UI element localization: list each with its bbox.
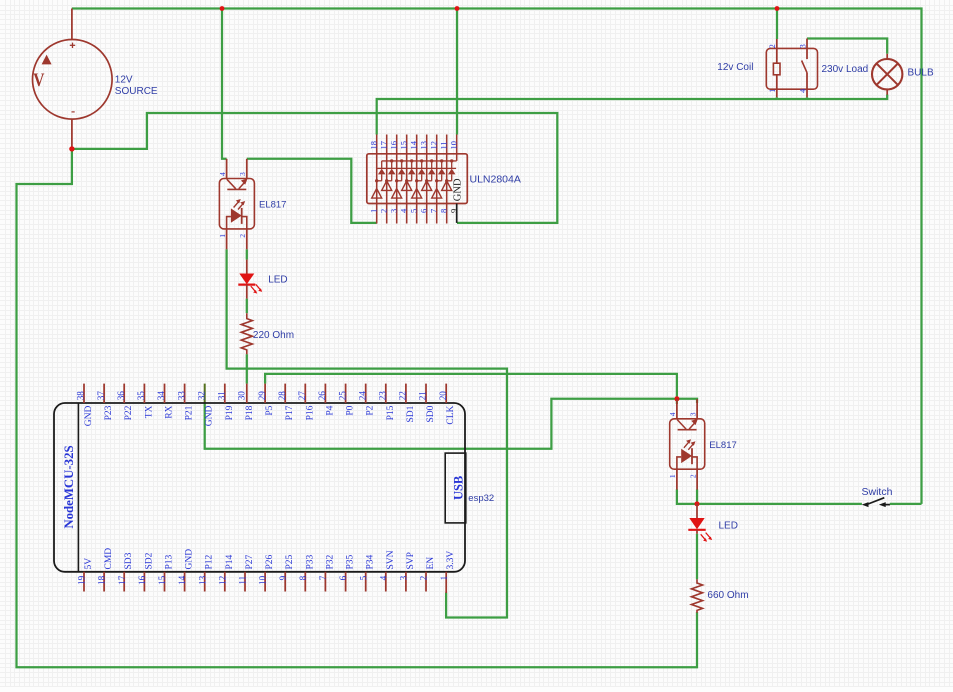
svg-text:5: 5 <box>358 575 368 580</box>
svg-text:15: 15 <box>398 141 408 150</box>
USB connector U2 <box>445 453 466 523</box>
junction net-12V at x=777 <box>775 6 780 11</box>
svg-text:LED: LED <box>268 275 287 286</box>
svg-text:35: 35 <box>136 391 146 401</box>
svg-text:P2: P2 <box>366 405 376 415</box>
svg-text:P18: P18 <box>245 405 255 420</box>
svg-text:21: 21 <box>418 391 428 401</box>
svg-text:33: 33 <box>176 391 186 401</box>
LED D2 <box>688 518 712 542</box>
pin 25 U2 stub <box>345 384 347 403</box>
pin 7 U2 stub <box>324 572 326 592</box>
svg-text:16: 16 <box>137 575 147 585</box>
wire net-12V drop to ULN pin10 <box>456 9 458 135</box>
pin 1 U2 stub <box>445 572 447 593</box>
svg-text:P13: P13 <box>165 554 175 569</box>
junction net-P5 at OK2 <box>674 396 679 401</box>
svg-text:RX: RX <box>165 405 175 418</box>
svg-text:SD2: SD2 <box>144 552 154 569</box>
svg-text:3: 3 <box>388 209 398 213</box>
svg-text:LED: LED <box>719 520 738 531</box>
opto-isolator OK1 EL817 <box>219 159 254 250</box>
svg-text:25: 25 <box>337 391 347 401</box>
svg-text:32: 32 <box>196 391 206 401</box>
wire net relay pin3 to bulb top <box>807 39 887 54</box>
svg-text:7: 7 <box>318 575 328 580</box>
svg-text:3.3V: 3.3V <box>446 551 456 570</box>
pin 23 U2 stub <box>385 384 387 403</box>
svg-text:9: 9 <box>278 575 288 580</box>
svg-text:EL817: EL817 <box>259 200 286 211</box>
svg-text:13: 13 <box>418 141 428 150</box>
svg-text:SD1: SD1 <box>406 405 416 422</box>
pin 14 U2 stub <box>184 572 186 592</box>
pin 30 U2 stub <box>246 384 248 403</box>
wire switch right to right rail <box>890 503 922 505</box>
svg-text:5: 5 <box>408 209 418 213</box>
pin 24 U2 stub <box>365 384 367 403</box>
svg-text:TX: TX <box>144 405 154 418</box>
pin 33 U2 stub <box>184 384 186 403</box>
svg-text:12v Coil: 12v Coil <box>717 62 753 73</box>
svg-text:P27: P27 <box>245 554 255 569</box>
svg-text:P12: P12 <box>205 554 215 569</box>
svg-text:8: 8 <box>298 575 308 580</box>
pin 11 U2 stub <box>244 572 246 592</box>
wire net-12V drop to OK1 pin4 <box>222 9 227 159</box>
svg-text:NodeMCU-32S: NodeMCU-32S <box>62 445 76 528</box>
pin 20 U2 stub <box>445 384 447 403</box>
svg-text:4: 4 <box>798 89 807 93</box>
svg-text:2: 2 <box>419 575 429 580</box>
svg-text:esp32: esp32 <box>468 493 494 504</box>
svg-text:P14: P14 <box>225 554 235 569</box>
pin 6 U2 stub <box>345 572 347 592</box>
pin 15 U2 stub <box>164 572 166 592</box>
wire LED2 anode lead <box>696 504 698 519</box>
svg-text:28: 28 <box>277 391 287 401</box>
svg-text:20: 20 <box>438 391 448 401</box>
wire R1 bottom to NodeMCU pin30 <box>246 354 248 383</box>
svg-text:1: 1 <box>218 234 227 238</box>
svg-text:P19: P19 <box>225 405 235 420</box>
wire net-12V top rail and right rail <box>72 9 922 504</box>
svg-text:17: 17 <box>117 575 127 585</box>
svg-text:17: 17 <box>378 141 388 150</box>
pin 28 U2 stub <box>284 384 286 403</box>
svg-text:38: 38 <box>76 391 86 401</box>
junction net-12V at x=457 <box>455 6 460 11</box>
svg-text:P35: P35 <box>346 554 356 569</box>
svg-text:3: 3 <box>238 172 247 176</box>
svg-text:11: 11 <box>438 141 448 149</box>
svg-text:22: 22 <box>398 391 408 401</box>
svg-text:26: 26 <box>317 391 327 401</box>
pin 35 U2 stub <box>143 384 145 403</box>
pin 36 U2 stub <box>123 384 125 403</box>
svg-text:P33: P33 <box>305 554 315 569</box>
svg-text:14: 14 <box>177 575 187 585</box>
svg-text:16: 16 <box>388 141 398 150</box>
pin 8 U2 stub <box>304 572 306 592</box>
wire OK1 pin2 to LED1 anode <box>246 249 248 259</box>
svg-text:EN: EN <box>426 557 436 570</box>
svg-text:GND: GND <box>185 549 195 570</box>
svg-text:2: 2 <box>378 209 388 213</box>
wire net-3V3 OK1 pin1 to NodeMCU 3.3V pin <box>227 249 507 617</box>
pin 26 U2 stub <box>324 384 326 403</box>
svg-text:P32: P32 <box>325 554 335 569</box>
svg-text:8: 8 <box>438 209 448 213</box>
junction net-VM at V1 minus <box>69 146 74 151</box>
svg-text:P21: P21 <box>185 405 195 420</box>
wire net-P5 NodeMCU pin29 to OK2 junction <box>265 374 677 404</box>
svg-text:SVN: SVN <box>386 550 396 569</box>
svg-text:EL817: EL817 <box>709 440 736 451</box>
svg-text:7: 7 <box>428 209 438 213</box>
svg-text:18: 18 <box>97 575 107 585</box>
svg-text:1: 1 <box>439 575 449 580</box>
pin 16 U2 stub <box>143 572 145 592</box>
wire V1 minus lead (red stub) <box>71 119 73 149</box>
LED D1 <box>238 260 262 299</box>
svg-text:SD3: SD3 <box>124 552 134 569</box>
relay K1 12v Coil <box>766 39 817 98</box>
svg-text:15: 15 <box>157 575 167 585</box>
svg-text:30: 30 <box>237 391 247 401</box>
svg-text:CLK: CLK <box>446 405 456 424</box>
svg-text:P25: P25 <box>285 554 295 569</box>
svg-text:3: 3 <box>688 412 697 416</box>
svg-text:P16: P16 <box>305 405 315 420</box>
svg-text:3: 3 <box>399 575 409 580</box>
resistor R2 660 Ohm <box>692 579 703 613</box>
wire V1 plus lead (red stub) <box>71 9 73 40</box>
svg-text:9: 9 <box>448 209 458 213</box>
svg-text:36: 36 <box>116 391 126 401</box>
svg-text:P4: P4 <box>325 405 335 415</box>
wire net OK1-pin3 to ULN pin1 <box>247 159 377 223</box>
svg-text:P23: P23 <box>104 405 114 420</box>
wire net-GND over NodeMCU pin32 (dark overlap) <box>204 384 206 403</box>
svg-text:10: 10 <box>258 575 268 585</box>
IC U1 ULN2804A <box>367 135 468 224</box>
svg-text:P34: P34 <box>366 554 376 569</box>
svg-text:4: 4 <box>218 172 227 176</box>
svg-text:12: 12 <box>217 575 227 585</box>
pin 2 U2 stub <box>425 572 427 592</box>
pin 29 U2 stub <box>264 384 266 403</box>
svg-text:GND: GND <box>84 405 94 426</box>
pin 27 U2 stub <box>304 384 306 403</box>
wire net-12V drop to relay pin2 <box>776 9 778 40</box>
wire relay pin1 to net <box>776 97 778 99</box>
wire net-GND from NodeMCU pin32 to OK2 junction <box>205 399 675 449</box>
svg-text:6: 6 <box>418 209 428 213</box>
svg-text:2: 2 <box>238 234 247 238</box>
svg-text:P0: P0 <box>346 405 356 415</box>
svg-text:1: 1 <box>668 474 677 478</box>
pin 17 U2 stub <box>123 572 125 592</box>
svg-text:GND: GND <box>452 178 463 201</box>
pin 10 U2 stub <box>264 572 266 592</box>
switch S1 <box>862 498 890 507</box>
pin 21 U2 stub <box>425 384 427 403</box>
svg-text:V: V <box>33 70 44 91</box>
svg-text:18: 18 <box>368 141 378 150</box>
wire net-VM left/bottom loop to R2 bottom <box>17 149 698 667</box>
svg-text:2: 2 <box>688 474 697 478</box>
pin 3 U2 stub <box>405 572 407 592</box>
resistor R1 220 Ohm <box>241 313 252 354</box>
svg-text:SD0: SD0 <box>426 405 436 422</box>
voltage source V1 12V SOURCE <box>33 40 113 120</box>
pin 5 U2 stub <box>365 572 367 592</box>
svg-text:5V: 5V <box>84 558 94 570</box>
svg-text:27: 27 <box>297 391 307 401</box>
opto-isolator OK2 EL817 <box>670 399 705 490</box>
svg-text:1: 1 <box>768 89 777 93</box>
svg-text:14: 14 <box>408 140 418 149</box>
svg-text:P5: P5 <box>265 405 275 415</box>
svg-text:USB: USB <box>452 476 466 500</box>
svg-text:P15: P15 <box>386 405 396 420</box>
svg-text:31: 31 <box>217 391 227 401</box>
svg-text:P17: P17 <box>285 405 295 420</box>
junction at LED2 anode <box>695 501 700 506</box>
module U2 NodeMCU-32S <box>54 403 465 572</box>
svg-text:12: 12 <box>428 141 438 150</box>
svg-text:Switch: Switch <box>862 486 893 498</box>
pin 9 U2 stub <box>284 572 286 592</box>
svg-text:SOURCE: SOURCE <box>115 86 158 97</box>
pin 13 U2 stub <box>204 572 206 592</box>
pin 12 U2 stub <box>224 572 226 592</box>
wire net-VM from V1 minus to ULN pin9 <box>72 113 557 223</box>
svg-text:2: 2 <box>768 44 777 48</box>
svg-text:13: 13 <box>197 575 207 585</box>
svg-text:BULB: BULB <box>908 68 934 79</box>
pin 31 U2 stub <box>224 384 226 403</box>
pin 18 U2 stub <box>103 572 105 592</box>
svg-text:220 Ohm: 220 Ohm <box>253 330 294 341</box>
pin 38 U2 stub <box>83 384 85 403</box>
svg-text:ULN2804A: ULN2804A <box>470 173 521 185</box>
svg-text:34: 34 <box>156 391 166 401</box>
svg-text:660 Ohm: 660 Ohm <box>707 590 748 601</box>
wire LED2 cathode to R2 top <box>696 534 698 580</box>
svg-text:6: 6 <box>338 575 348 580</box>
svg-text:P22: P22 <box>124 405 134 420</box>
wire OK2 pin2 down to junction <box>696 489 698 504</box>
wire relay pin4 to net <box>806 97 808 99</box>
svg-text:11: 11 <box>238 575 248 584</box>
svg-text:37: 37 <box>96 391 106 401</box>
wire LED1 cathode to R1 top <box>246 299 248 314</box>
wire net ULN pin18 to relay and bulb bottom <box>377 95 888 135</box>
svg-text:230v Load: 230v Load <box>822 64 869 75</box>
svg-text:4: 4 <box>668 412 677 416</box>
lamp BULB <box>872 54 902 95</box>
svg-text:12V: 12V <box>115 75 133 86</box>
wire R2 bottom stub green <box>696 611 698 614</box>
pin 4 U2 stub <box>385 572 387 592</box>
wire net OK2 pin1 to switch left <box>677 489 862 504</box>
svg-text:3: 3 <box>798 44 807 48</box>
svg-text:4: 4 <box>378 575 388 580</box>
svg-text:SVP: SVP <box>406 552 416 569</box>
pin 22 U2 stub <box>405 384 407 403</box>
svg-text:P26: P26 <box>265 554 275 569</box>
pin 34 U2 stub <box>164 384 166 403</box>
svg-text:23: 23 <box>378 391 388 401</box>
svg-text:GND: GND <box>205 405 215 426</box>
svg-text:24: 24 <box>357 391 367 401</box>
svg-text:19: 19 <box>77 575 87 585</box>
pin 19 U2 stub <box>83 572 85 592</box>
junction net-12V at x=222 <box>220 6 225 11</box>
pin 37 U2 stub <box>103 384 105 403</box>
wire net-P5 branch to OK2 pin3 <box>677 399 697 403</box>
svg-text:29: 29 <box>257 391 267 401</box>
svg-text:1: 1 <box>368 209 378 213</box>
svg-text:CMD: CMD <box>104 548 114 570</box>
svg-text:10: 10 <box>448 141 458 150</box>
